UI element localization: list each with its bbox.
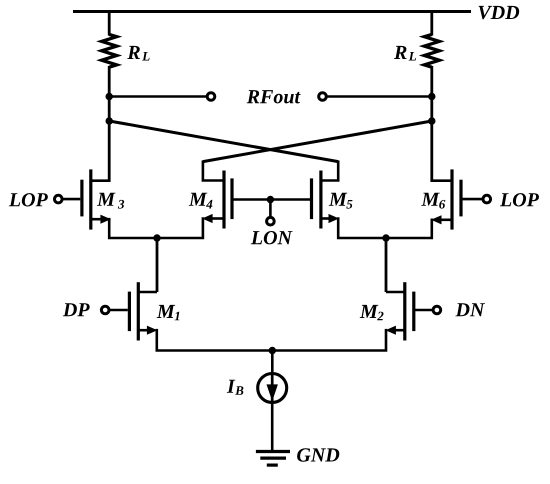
resistor RL right (424, 34, 439, 67)
node right cross (428, 117, 435, 124)
wire VDD rail (73, 10, 471, 13)
terminal RFout left (207, 93, 215, 101)
wire M6 source to tail node (386, 219, 432, 239)
wire rail to right resistor (430, 10, 433, 36)
wire right resistor to M6 drain (430, 66, 433, 182)
wire rail to left resistor (108, 10, 111, 36)
label IB (227, 380, 244, 395)
wire node to M2 drain (385, 237, 388, 293)
node left output (106, 93, 113, 100)
node M5 M6 sources (382, 234, 389, 241)
terminal RFout right (319, 93, 327, 101)
label LOP right (500, 193, 539, 206)
node right output (428, 93, 435, 100)
wire LON stub (269, 200, 272, 217)
label RL right (394, 46, 416, 61)
label M6 (421, 193, 445, 209)
wire M5 source to tail node (338, 217, 386, 238)
terminal LOP left (55, 195, 63, 203)
terminal DN (433, 306, 441, 314)
label DN (455, 303, 485, 316)
transistor M6 (431, 169, 483, 229)
wire right RFout (327, 95, 432, 98)
wire M3 source to tail node (109, 218, 157, 238)
label M4 (189, 193, 213, 209)
terminal LOP right (483, 195, 491, 203)
wire cross-couple left to M5 drain (109, 121, 338, 162)
label RL left (127, 46, 149, 61)
wire cross-couple right to M4 drain (203, 121, 432, 162)
label M5 (329, 193, 353, 209)
label M2 (360, 305, 384, 320)
node left cross (106, 117, 113, 124)
node LON (267, 196, 274, 203)
wire left RFout (109, 95, 206, 98)
transistor M1 (110, 282, 158, 340)
ground (256, 452, 290, 466)
terminal LON (267, 217, 275, 225)
transistor M2 (385, 282, 432, 340)
node tail (269, 347, 276, 354)
wire node to M1 drain (156, 237, 159, 293)
resistor RL left (102, 34, 117, 67)
wire M4 source to tail node (157, 217, 203, 238)
transistor M3 (63, 169, 111, 229)
label LON (251, 231, 293, 244)
label LOP left (9, 193, 48, 206)
current source IB (258, 372, 287, 404)
transistor M5 (312, 161, 340, 229)
VDD label (479, 6, 520, 19)
wire LO gate interconnect (232, 198, 312, 201)
terminal DP (101, 306, 109, 314)
wire left resistor to M3 drain (108, 66, 111, 182)
transistor M4 (202, 161, 232, 229)
wire M2 source to tail (272, 329, 386, 351)
wire tail to current source (271, 351, 274, 375)
label DP (63, 303, 90, 316)
label GND (297, 448, 339, 461)
wire current source to ground (271, 403, 274, 452)
node M3 M4 sources (153, 234, 160, 241)
label M3 (97, 193, 124, 209)
label M1 (157, 305, 180, 320)
label RFout (247, 90, 301, 103)
wire M1 source to tail (157, 329, 272, 351)
